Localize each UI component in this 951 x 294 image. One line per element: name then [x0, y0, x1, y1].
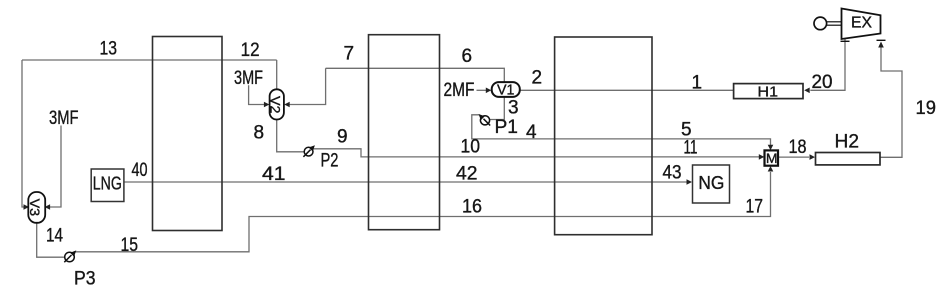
arrowhead into V2 left [264, 102, 270, 108]
svg-text:6: 6 [462, 46, 473, 67]
heater H2 [816, 153, 881, 165]
pump P3 arrowhead [70, 250, 76, 256]
wire 9-10-11 from P2 to mixer M [313, 149, 760, 157]
svg-text:3MF: 3MF [49, 108, 79, 129]
arrowhead 2MF into V1 [486, 88, 492, 94]
svg-text:NG: NG [698, 173, 724, 193]
valve V2 [268, 89, 284, 119]
svg-text:43: 43 [663, 163, 682, 184]
svg-text:1: 1 [692, 73, 703, 94]
arrowhead 5 into mixer M top [768, 145, 774, 151]
shaft between generator and EX [827, 22, 842, 25]
LNG source box [91, 169, 124, 202]
svg-text:2: 2 [532, 68, 543, 89]
svg-text:M: M [766, 150, 778, 166]
svg-text:15: 15 [121, 235, 139, 256]
arrowhead 18 into H2 [810, 154, 816, 160]
wire 4-5 from P1 to mixer M top [472, 115, 771, 146]
svg-text:2MF: 2MF [444, 80, 475, 101]
svg-text:12: 12 [241, 40, 260, 61]
svg-text:18: 18 [789, 137, 807, 158]
svg-text:V3: V3 [27, 199, 43, 217]
arrowhead 20 into H1 [804, 88, 810, 94]
wire 40-41-42-43 from LNG to NG [124, 181, 687, 183]
svg-text:41: 41 [262, 164, 286, 185]
wire 3MF down to valve V3 right [50, 126, 61, 208]
wire 20 from expander EX to heater H1 [810, 39, 845, 91]
wire 13-12 [22, 59, 277, 61]
wire 18 from mixer M to heater H2 [778, 156, 809, 158]
svg-text:P3: P3 [74, 269, 96, 290]
flange tick EX inlet [877, 39, 886, 41]
arrowhead into V3 right [45, 204, 51, 210]
generator circle of EX [814, 17, 827, 30]
svg-text:9: 9 [337, 127, 348, 148]
pump P2 [303, 147, 313, 157]
pump P1 [480, 116, 490, 126]
svg-text:P2: P2 [321, 151, 339, 172]
svg-text:10: 10 [461, 137, 481, 158]
heat exchanger E3 [555, 37, 652, 235]
svg-text:LNG: LNG [93, 174, 122, 194]
wire from 13 down to valve V3 left [22, 60, 25, 207]
wire 7-6 through exchanger E2 to valve V1 top [326, 68, 505, 82]
wire 3MF into valve V2 left [249, 85, 265, 104]
wire 15-16-17 from P3 to mixer M [76, 172, 771, 252]
svg-text:14: 14 [46, 226, 63, 247]
svg-text:20: 20 [812, 72, 833, 93]
svg-text:H1: H1 [758, 84, 779, 101]
svg-text:V1: V1 [497, 83, 515, 99]
svg-text:7: 7 [344, 44, 355, 65]
svg-text:40: 40 [132, 160, 148, 181]
arrowhead into V2 right [284, 102, 290, 108]
arrowhead into V3 left [24, 204, 30, 210]
arrowhead 43 into NG [687, 179, 693, 185]
svg-text:17: 17 [746, 197, 764, 218]
flange tick EX outlet [841, 40, 850, 42]
expander EX [842, 9, 881, 40]
svg-text:3MF: 3MF [234, 68, 263, 89]
heat exchanger E2 [369, 35, 440, 230]
heater H1 [734, 84, 803, 101]
svg-text:13: 13 [100, 39, 118, 60]
pump P3 [64, 252, 74, 262]
wire 12 into valve V2 top [276, 60, 278, 89]
mixer M [765, 150, 779, 166]
arrowhead 11 into mixer M left [759, 154, 765, 160]
pump P1 arrowhead [479, 114, 485, 120]
pump P2 arrowhead [309, 145, 315, 151]
wire 8 from V2 to pump P2 [277, 120, 305, 152]
svg-text:19: 19 [916, 98, 937, 119]
svg-text:11: 11 [684, 138, 698, 159]
svg-text:8: 8 [254, 123, 265, 144]
svg-text:H2: H2 [835, 132, 860, 153]
svg-text:EX: EX [851, 15, 873, 32]
valve V1 [492, 82, 520, 98]
svg-text:42: 42 [456, 164, 478, 185]
heat exchanger E1 [153, 37, 223, 231]
wire 2-1 from valve V1 to heater H1 [520, 89, 734, 91]
wire 14 from V3 to pump P3 [37, 223, 65, 257]
arrowhead 17 into mixer M bottom [768, 166, 774, 172]
NG sink box [693, 165, 730, 203]
wire 3 from V1 bottom to pump P1 [490, 97, 504, 120]
wire 19 from H2 up to expander EX [880, 48, 902, 158]
arrowhead 19 into expander EX [878, 42, 884, 48]
svg-text:V2: V2 [268, 96, 284, 114]
svg-text:16: 16 [462, 197, 482, 218]
wire 7 down into valve V2 right [289, 68, 325, 104]
wire 2MF into valve V1 [477, 89, 487, 91]
svg-text:P1: P1 [495, 117, 519, 138]
valve V3 [27, 192, 45, 223]
svg-text:4: 4 [526, 122, 537, 143]
svg-text:3: 3 [508, 98, 519, 119]
